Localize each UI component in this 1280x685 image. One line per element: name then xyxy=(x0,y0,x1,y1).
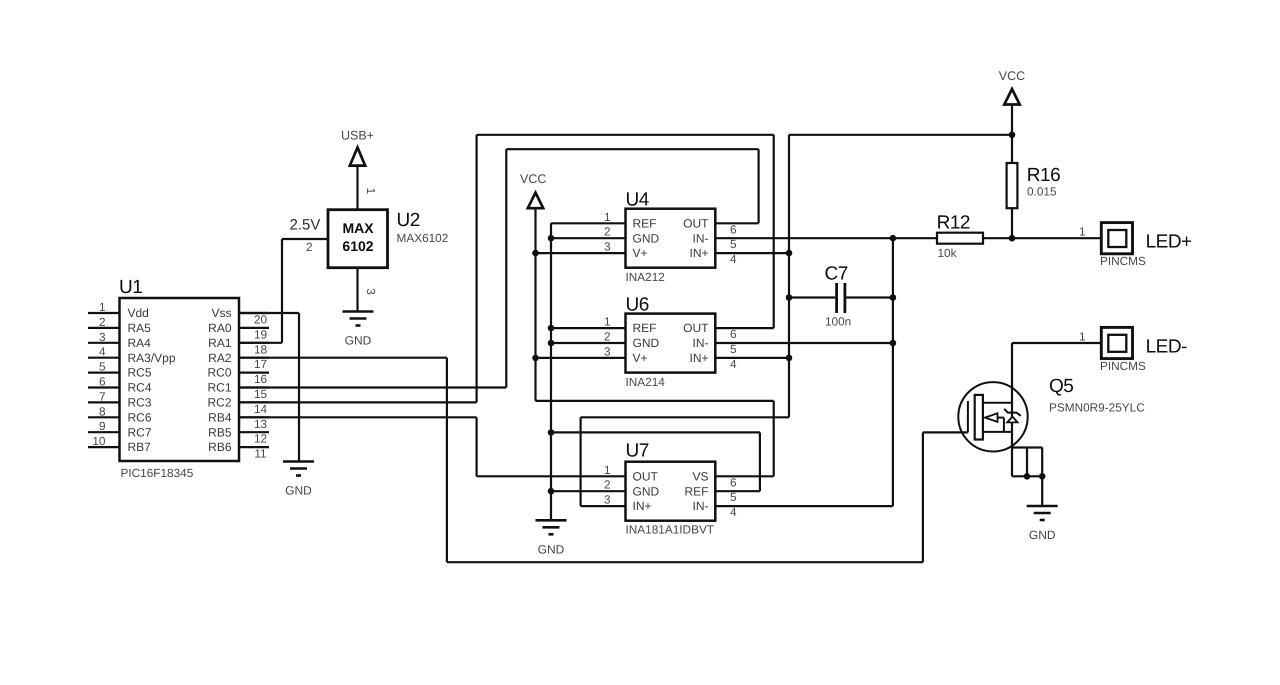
svg-text:3: 3 xyxy=(604,240,611,254)
svg-text:INA214: INA214 xyxy=(626,375,666,389)
svg-text:RA1: RA1 xyxy=(208,336,232,350)
svg-text:MAX6102: MAX6102 xyxy=(397,231,449,245)
svg-text:1: 1 xyxy=(604,210,611,224)
svg-text:9: 9 xyxy=(99,419,106,433)
svg-text:3: 3 xyxy=(604,493,611,507)
svg-text:19: 19 xyxy=(254,327,267,341)
svg-text:OUT: OUT xyxy=(683,216,709,230)
svg-text:2: 2 xyxy=(99,315,106,329)
svg-text:Vdd: Vdd xyxy=(128,306,149,320)
svg-text:2: 2 xyxy=(604,225,611,239)
svg-text:1: 1 xyxy=(99,300,106,314)
svg-text:OUT: OUT xyxy=(683,321,709,335)
svg-text:VS: VS xyxy=(692,469,708,483)
svg-text:6: 6 xyxy=(730,222,737,236)
svg-text:INA212: INA212 xyxy=(626,270,665,284)
svg-text:Q5: Q5 xyxy=(1049,376,1073,397)
svg-text:RA5: RA5 xyxy=(128,321,152,335)
svg-text:5: 5 xyxy=(99,360,106,374)
svg-text:GND: GND xyxy=(633,336,660,350)
svg-text:8: 8 xyxy=(99,404,106,418)
svg-text:GND: GND xyxy=(285,484,312,498)
svg-text:OUT: OUT xyxy=(633,469,659,483)
svg-text:2: 2 xyxy=(306,240,313,254)
svg-text:U6: U6 xyxy=(626,294,649,315)
svg-text:4: 4 xyxy=(99,345,106,359)
svg-text:13: 13 xyxy=(254,417,268,431)
svg-text:RC3: RC3 xyxy=(128,396,152,410)
svg-text:R12: R12 xyxy=(937,213,970,234)
svg-text:1: 1 xyxy=(1079,225,1086,239)
svg-text:RA2: RA2 xyxy=(208,351,232,365)
svg-text:U7: U7 xyxy=(626,441,649,462)
svg-text:RA4: RA4 xyxy=(128,336,152,350)
svg-text:RB7: RB7 xyxy=(128,440,152,454)
svg-text:12: 12 xyxy=(254,432,267,446)
svg-text:R16: R16 xyxy=(1027,165,1060,186)
svg-text:REF: REF xyxy=(633,216,657,230)
svg-text:16: 16 xyxy=(254,372,268,386)
svg-text:RC5: RC5 xyxy=(128,366,152,380)
svg-text:U4: U4 xyxy=(626,190,650,211)
svg-text:17: 17 xyxy=(254,357,267,371)
svg-text:PIC16F18345: PIC16F18345 xyxy=(121,466,194,480)
svg-text:0.015: 0.015 xyxy=(1027,185,1057,199)
svg-text:C7: C7 xyxy=(825,264,848,285)
svg-text:RC0: RC0 xyxy=(207,366,231,380)
svg-text:3: 3 xyxy=(364,288,378,295)
svg-text:INA181A1IDBVT: INA181A1IDBVT xyxy=(626,523,715,537)
svg-text:REF: REF xyxy=(633,321,657,335)
svg-text:18: 18 xyxy=(254,342,268,356)
svg-text:RA3/Vpp: RA3/Vpp xyxy=(128,351,176,365)
svg-text:IN+: IN+ xyxy=(689,246,708,260)
svg-text:IN-: IN- xyxy=(693,231,709,245)
svg-text:1: 1 xyxy=(604,315,611,329)
svg-text:2: 2 xyxy=(604,330,611,344)
svg-text:20: 20 xyxy=(254,313,268,327)
svg-text:6: 6 xyxy=(99,375,106,389)
svg-text:10k: 10k xyxy=(938,246,957,260)
svg-text:LED-: LED- xyxy=(1146,337,1187,358)
svg-text:GND: GND xyxy=(633,231,660,245)
svg-text:3: 3 xyxy=(99,330,106,344)
svg-text:RC1: RC1 xyxy=(207,381,231,395)
svg-text:RA0: RA0 xyxy=(208,321,232,335)
svg-text:USB+: USB+ xyxy=(341,129,374,143)
svg-text:RC4: RC4 xyxy=(128,381,152,395)
svg-text:14: 14 xyxy=(254,402,268,416)
svg-text:Vss: Vss xyxy=(211,306,231,320)
svg-text:GND: GND xyxy=(538,542,565,556)
svg-text:U1: U1 xyxy=(119,277,142,298)
svg-text:RB6: RB6 xyxy=(208,440,232,454)
svg-text:PSMN0R9-25YLC: PSMN0R9-25YLC xyxy=(1049,401,1145,415)
svg-text:2: 2 xyxy=(604,478,611,492)
svg-text:11: 11 xyxy=(254,447,266,461)
svg-text:IN-: IN- xyxy=(693,336,709,350)
svg-text:LED+: LED+ xyxy=(1146,232,1192,253)
svg-text:GND: GND xyxy=(1029,528,1056,542)
svg-text:V+: V+ xyxy=(633,351,648,365)
svg-text:VCC: VCC xyxy=(520,172,546,186)
svg-text:1: 1 xyxy=(364,188,378,195)
svg-text:U2: U2 xyxy=(397,210,420,231)
svg-text:MAX: MAX xyxy=(342,220,374,236)
svg-text:PINCMS: PINCMS xyxy=(1100,254,1146,268)
svg-text:V+: V+ xyxy=(633,246,648,260)
svg-text:3: 3 xyxy=(604,344,611,358)
svg-text:2.5V: 2.5V xyxy=(290,217,321,234)
svg-text:IN-: IN- xyxy=(693,499,709,513)
svg-text:IN+: IN+ xyxy=(689,351,708,365)
svg-text:7: 7 xyxy=(99,389,106,403)
svg-text:1: 1 xyxy=(604,463,611,477)
svg-text:4: 4 xyxy=(730,252,737,266)
svg-text:15: 15 xyxy=(254,387,268,401)
svg-text:1: 1 xyxy=(1079,330,1086,344)
svg-text:VCC: VCC xyxy=(999,69,1025,83)
svg-text:RB4: RB4 xyxy=(208,410,232,424)
svg-text:GND: GND xyxy=(345,334,372,348)
svg-text:RC6: RC6 xyxy=(128,410,152,424)
svg-text:10: 10 xyxy=(92,434,106,448)
svg-text:RC2: RC2 xyxy=(207,396,231,410)
svg-text:REF: REF xyxy=(685,484,709,498)
svg-text:RC7: RC7 xyxy=(128,425,152,439)
svg-text:GND: GND xyxy=(633,484,660,498)
svg-text:6102: 6102 xyxy=(342,238,373,254)
svg-text:RB5: RB5 xyxy=(208,425,232,439)
svg-text:PINCMS: PINCMS xyxy=(1100,359,1146,373)
svg-text:IN+: IN+ xyxy=(633,499,652,513)
svg-text:100n: 100n xyxy=(825,315,851,329)
svg-text:5: 5 xyxy=(730,237,737,251)
